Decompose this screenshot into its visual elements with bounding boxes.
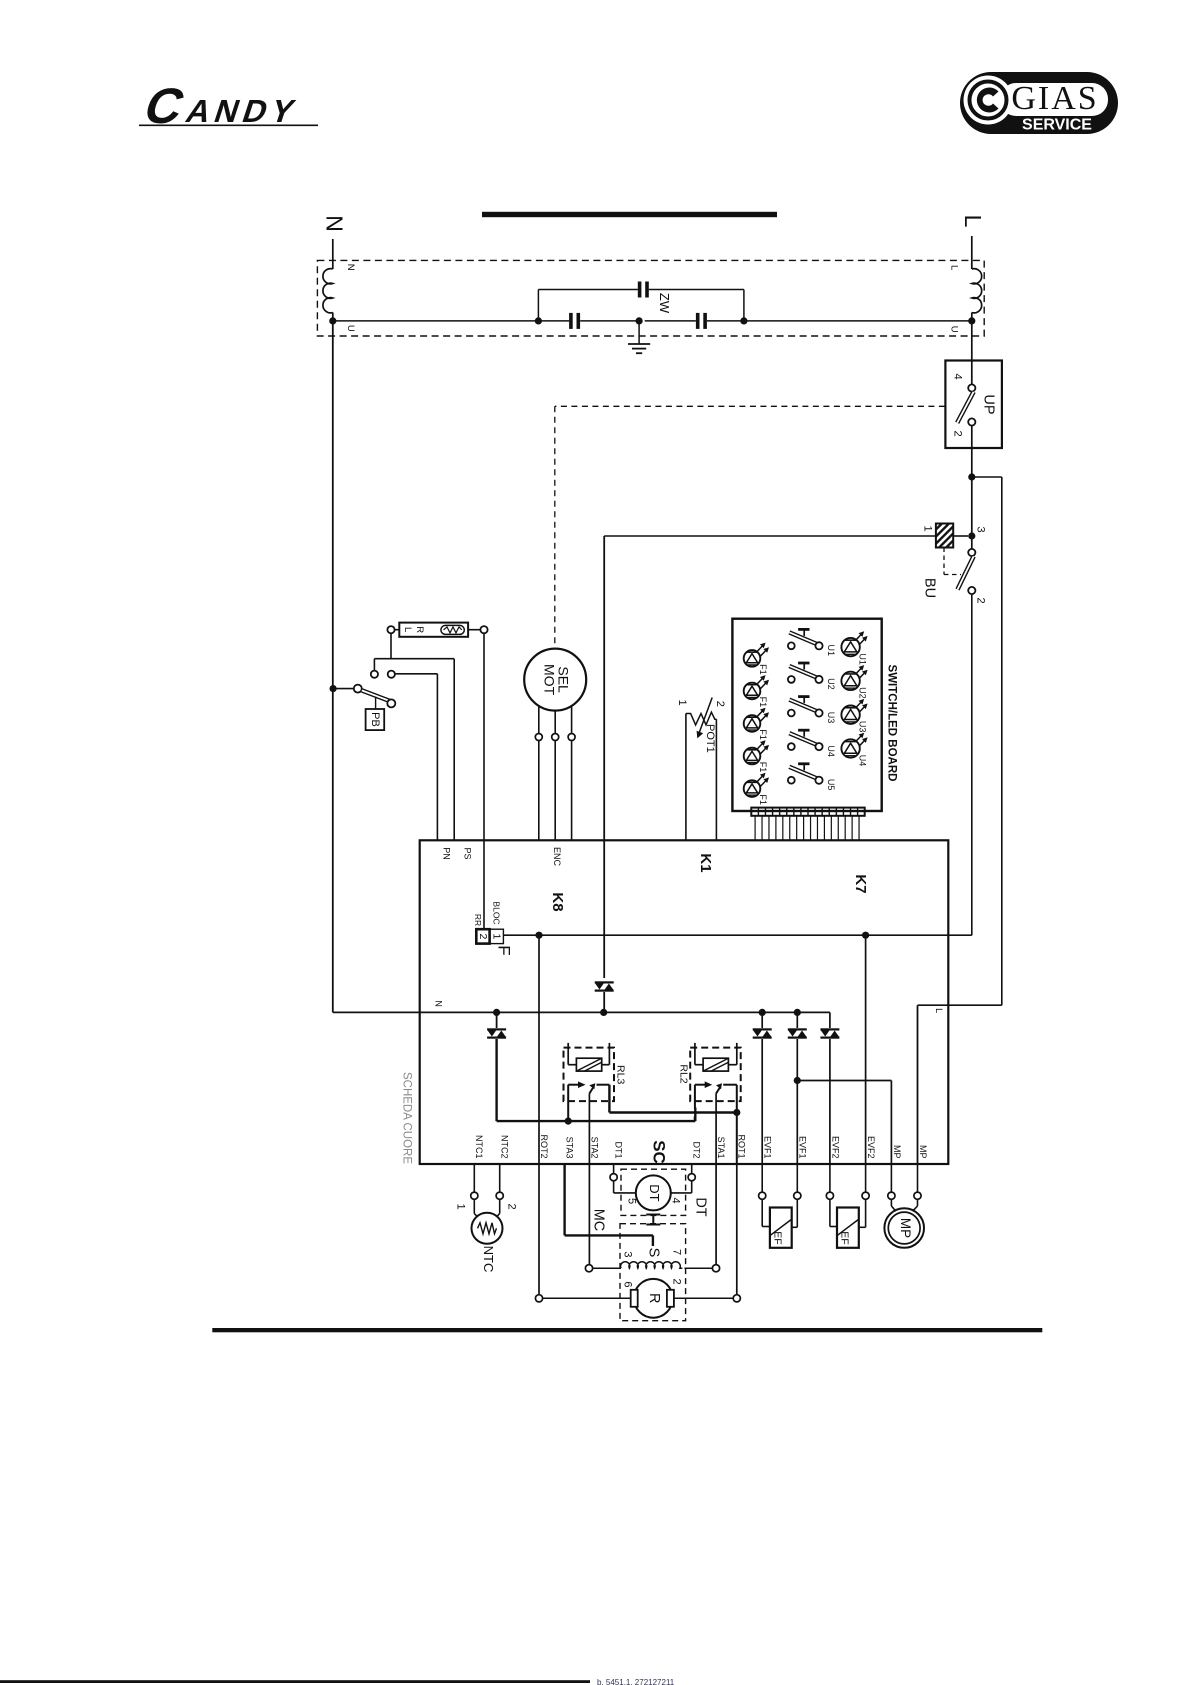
svg-text:POT1: POT1 bbox=[704, 724, 716, 753]
svg-text:U5: U5 bbox=[826, 779, 836, 791]
wires SEL MOT to board bbox=[538, 706, 540, 734]
svg-text:U4: U4 bbox=[858, 755, 868, 767]
svg-text:ENC: ENC bbox=[552, 847, 562, 867]
svg-text:3: 3 bbox=[621, 1251, 633, 1257]
svg-text:DT: DT bbox=[693, 1197, 709, 1216]
svg-text:L: L bbox=[948, 265, 959, 270]
svg-text:L: L bbox=[402, 627, 413, 632]
svg-text:2: 2 bbox=[714, 701, 726, 707]
svg-text:2: 2 bbox=[975, 597, 987, 603]
capacitor C1 bbox=[569, 313, 573, 329]
svg-text:STA2: STA2 bbox=[590, 1137, 600, 1159]
wire ROT2 to R motor bbox=[538, 1163, 540, 1295]
svg-text:N: N bbox=[322, 215, 348, 232]
motor SEL MOT bbox=[524, 649, 586, 711]
potentiometer POT1 bbox=[676, 698, 726, 753]
relay RL3 bbox=[564, 1043, 627, 1101]
thermistor NTC bbox=[455, 1192, 518, 1272]
svg-text:STA3: STA3 bbox=[565, 1137, 575, 1159]
svg-text:6: 6 bbox=[621, 1281, 633, 1287]
motor MP bbox=[884, 1163, 924, 1248]
ground bbox=[638, 321, 640, 344]
svg-text:RL3: RL3 bbox=[615, 1065, 627, 1084]
svg-text:U3: U3 bbox=[858, 721, 868, 733]
wire MP branch bbox=[794, 1077, 801, 1084]
svg-text:2: 2 bbox=[671, 1278, 683, 1284]
wire RL3 left throw bbox=[567, 1085, 569, 1121]
wire dashed BU link bbox=[943, 548, 945, 575]
svg-text:L: L bbox=[934, 1008, 944, 1013]
LED F1 #5 bbox=[744, 780, 761, 797]
svg-text:4: 4 bbox=[952, 373, 964, 379]
wire POT1-1 to board bbox=[685, 714, 687, 841]
wire PS run bbox=[374, 658, 454, 660]
lamp R box bbox=[399, 623, 468, 637]
wire F rail bbox=[503, 934, 971, 936]
wire ROT2 column bbox=[538, 935, 540, 1163]
wire coil to STA1 contact bbox=[684, 1267, 712, 1269]
wire filter bottom rail bbox=[333, 320, 569, 322]
svg-text:1: 1 bbox=[455, 1203, 467, 1209]
svg-text:F1: F1 bbox=[758, 697, 768, 708]
svg-text:F1: F1 bbox=[758, 762, 768, 773]
wire lamp left down bbox=[390, 633, 392, 658]
svg-text:U2: U2 bbox=[826, 678, 836, 690]
node L junction below UP bbox=[968, 473, 975, 480]
svg-text:MC: MC bbox=[591, 1209, 607, 1232]
svg-text:DT1: DT1 bbox=[614, 1141, 624, 1158]
wire BU gate line to board bbox=[604, 535, 936, 537]
svg-text:1: 1 bbox=[922, 525, 934, 531]
svg-text:U: U bbox=[948, 326, 959, 333]
thermal fuse BU hatched box bbox=[922, 524, 954, 548]
svg-text:MOT: MOT bbox=[541, 664, 557, 696]
wire L to UP switch bbox=[971, 321, 973, 385]
svg-text:SCHEDA CUORE: SCHEDA CUORE bbox=[400, 1072, 412, 1164]
svg-text:ROT1: ROT1 bbox=[737, 1134, 747, 1158]
svg-text:R: R bbox=[646, 1293, 662, 1303]
svg-text:PB: PB bbox=[369, 712, 381, 727]
svg-text:MP: MP bbox=[898, 1218, 913, 1238]
wire N input bbox=[332, 239, 334, 269]
svg-text:U3: U3 bbox=[826, 712, 836, 724]
svg-text:EVF2: EVF2 bbox=[831, 1136, 841, 1159]
svg-text:3: 3 bbox=[975, 526, 987, 532]
triac RL1 chain bbox=[496, 1012, 498, 1028]
svg-text:SERVICE: SERVICE bbox=[1022, 117, 1092, 134]
footer bar bbox=[0, 1680, 590, 1683]
switch U1 bbox=[788, 629, 836, 656]
svg-text:NTC2: NTC2 bbox=[500, 1135, 510, 1159]
svg-text:DT2: DT2 bbox=[692, 1141, 702, 1158]
svg-text:F: F bbox=[495, 945, 514, 955]
svg-text:1: 1 bbox=[676, 699, 688, 705]
GIAS service logo bbox=[960, 72, 1118, 134]
capacitor C3 bbox=[638, 282, 642, 298]
triac EVF1b bbox=[796, 1012, 798, 1028]
LED U3 bbox=[841, 706, 859, 724]
wire BU-2 down to F rail bbox=[971, 594, 973, 935]
svg-text:MP: MP bbox=[918, 1145, 928, 1159]
LED F1 #4 bbox=[744, 748, 761, 765]
svg-text:U: U bbox=[345, 325, 356, 332]
svg-text:R: R bbox=[414, 626, 425, 633]
svg-text:UP: UP bbox=[981, 394, 997, 414]
LED U2 bbox=[841, 672, 859, 690]
node junctions on filter rail bbox=[329, 317, 336, 324]
wire top branch bbox=[538, 289, 638, 291]
switch U3 bbox=[788, 697, 836, 724]
wire NTC columns bbox=[473, 1163, 475, 1192]
wire L to BU bbox=[971, 477, 973, 549]
svg-text:ANDY: ANDY bbox=[182, 93, 304, 129]
svg-text:DT: DT bbox=[647, 1184, 662, 1201]
connector RR/BLOC fuse F bbox=[473, 901, 514, 955]
wire RL2 common STA1 bbox=[715, 1094, 717, 1164]
fan EF2 bbox=[826, 1163, 869, 1248]
svg-text:EVF1: EVF1 bbox=[798, 1136, 808, 1159]
svg-text:PN: PN bbox=[442, 847, 452, 860]
svg-text:U1: U1 bbox=[858, 653, 868, 665]
svg-text:NTC1: NTC1 bbox=[474, 1135, 484, 1159]
svg-text:SC: SC bbox=[650, 1140, 669, 1164]
LED U1 bbox=[841, 638, 859, 656]
wire BU box to node 3 bbox=[953, 535, 968, 537]
svg-text:2: 2 bbox=[506, 1203, 518, 1209]
wire STA2 contact to coil bbox=[588, 1163, 590, 1265]
LED F1 #3 bbox=[744, 715, 761, 732]
wire RL3 right throw bbox=[608, 1085, 610, 1113]
wire POT1-2 to board bbox=[715, 719, 717, 840]
svg-text:EF: EF bbox=[839, 1231, 851, 1244]
title bar bbox=[482, 212, 777, 217]
svg-text:MP: MP bbox=[892, 1145, 902, 1159]
wire L branch right and down bbox=[972, 476, 1002, 478]
PCB board SCHEDA CUORE bbox=[420, 840, 949, 1164]
svg-text:4: 4 bbox=[670, 1197, 682, 1203]
line filter ZW dashed box bbox=[317, 260, 984, 336]
svg-text:F1: F1 bbox=[758, 729, 768, 740]
svg-text:5: 5 bbox=[626, 1198, 638, 1204]
switch U5 bbox=[788, 764, 836, 791]
svg-text:F1: F1 bbox=[758, 664, 768, 675]
svg-text:EVF2: EVF2 bbox=[866, 1136, 876, 1159]
svg-text:U2: U2 bbox=[858, 687, 868, 699]
switch BU blade bbox=[922, 549, 987, 604]
svg-text:ZW: ZW bbox=[657, 293, 672, 314]
connector LED board comb bbox=[751, 808, 864, 816]
SWITCH/LED BOARD bbox=[732, 619, 881, 811]
svg-text:EF: EF bbox=[772, 1231, 784, 1244]
svg-text:2: 2 bbox=[477, 933, 489, 939]
svg-text:N: N bbox=[433, 1000, 443, 1007]
wire heavy bus to RL throws bbox=[497, 1120, 696, 1122]
svg-text:PS: PS bbox=[463, 847, 473, 859]
svg-text:BU: BU bbox=[922, 578, 938, 598]
wire N vertical drop bbox=[332, 321, 334, 1013]
wire MC from STA3 bbox=[563, 1163, 565, 1235]
switch U4 bbox=[788, 730, 836, 757]
svg-text:U4: U4 bbox=[826, 745, 836, 757]
svg-text:RL2: RL2 bbox=[678, 1064, 690, 1083]
fan EF1 bbox=[759, 1163, 801, 1248]
inductor filter L coil bbox=[972, 269, 982, 313]
thermostat DT dashed box bbox=[610, 1163, 709, 1225]
switch UP bbox=[945, 361, 1002, 478]
wire RL3 common STA2 bbox=[588, 1094, 590, 1164]
triac EVF2 bbox=[829, 1012, 831, 1028]
switch PB bbox=[330, 685, 396, 731]
switch U2 bbox=[788, 663, 836, 690]
capacitor C2 bbox=[696, 313, 700, 329]
svg-text:2: 2 bbox=[952, 430, 964, 436]
bottom separator bar bbox=[212, 1328, 1042, 1332]
svg-text:RR: RR bbox=[473, 914, 483, 926]
wire N bus bbox=[333, 1011, 830, 1013]
svg-text:b. 5451.1. 272127211: b. 5451.1. 272127211 bbox=[597, 1678, 675, 1685]
svg-text:S: S bbox=[646, 1248, 662, 1258]
wire dashed control link UP to SEL MOT bbox=[555, 405, 945, 407]
svg-text:F1: F1 bbox=[758, 794, 768, 805]
inductor filter N coil bbox=[323, 269, 333, 313]
motor R bbox=[621, 1278, 682, 1317]
svg-text:SWITCH/LED BOARD: SWITCH/LED BOARD bbox=[885, 665, 897, 782]
svg-text:K1: K1 bbox=[697, 853, 714, 872]
relay RL2 bbox=[678, 1043, 741, 1101]
wire PN run bbox=[388, 671, 395, 678]
LED U4 bbox=[841, 739, 859, 757]
wire L input bbox=[971, 236, 973, 269]
svg-text:EVF1: EVF1 bbox=[763, 1136, 773, 1159]
svg-text:L: L bbox=[960, 215, 986, 228]
solenoid S / motor R dashed box bbox=[620, 1224, 686, 1321]
triac on BU line bbox=[595, 981, 614, 983]
svg-text:1: 1 bbox=[491, 933, 503, 939]
wires LED board pins bbox=[755, 816, 859, 841]
svg-text:STA1: STA1 bbox=[716, 1137, 726, 1159]
wire RL2 right throw ROT1 bbox=[736, 1085, 738, 1163]
wire R motor to ROT1 bbox=[674, 1297, 733, 1299]
Candy logo bbox=[138, 78, 318, 134]
svg-text:BLOC: BLOC bbox=[491, 901, 501, 924]
wire lamp right to RR connector bbox=[483, 633, 485, 929]
wire RL2 left throw (hop over) bbox=[694, 1085, 696, 1109]
wire EVF2b column bbox=[865, 935, 867, 1163]
LED F1 #1 bbox=[744, 650, 761, 667]
svg-text:NTC: NTC bbox=[481, 1246, 496, 1273]
svg-text:N: N bbox=[345, 264, 356, 271]
svg-text:GIAS: GIAS bbox=[1011, 80, 1098, 117]
svg-text:7: 7 bbox=[671, 1249, 683, 1255]
triac EVF1 bbox=[761, 1012, 763, 1028]
LED F1 #2 bbox=[744, 683, 761, 700]
svg-text:K8: K8 bbox=[549, 892, 566, 911]
svg-text:ROT2: ROT2 bbox=[539, 1134, 549, 1158]
svg-text:K7: K7 bbox=[852, 874, 869, 893]
svg-text:U1: U1 bbox=[826, 645, 836, 657]
solenoid S coil bbox=[621, 1248, 683, 1269]
